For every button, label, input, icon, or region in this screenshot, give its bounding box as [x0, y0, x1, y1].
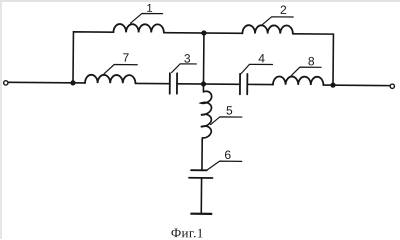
- svg-text:5: 5: [226, 104, 233, 118]
- label 7 leader: [104, 64, 137, 73]
- ground: [191, 213, 211, 215]
- wire: capacitor 3 to center node: [177, 83, 240, 86]
- label 5 leader: [211, 117, 242, 125]
- wire: left terminal to inductor 7: [8, 81, 85, 84]
- node: left junction: [70, 80, 75, 85]
- svg-text:4: 4: [258, 51, 265, 65]
- label 3 leader: [172, 64, 197, 73]
- label 8 leader: [291, 67, 321, 76]
- output terminal (right): [390, 84, 394, 88]
- wire: inductor 8 to output: [323, 84, 390, 87]
- input terminal (left): [4, 81, 8, 85]
- svg-text:8: 8: [308, 54, 315, 68]
- inductor 5: [201, 91, 212, 141]
- wire: left junction up to top line: [73, 32, 113, 83]
- svg-text:7: 7: [122, 51, 129, 65]
- wire: capacitor 4 to inductor 8: [247, 83, 273, 85]
- wire: inductor 5 to capacitor 6: [201, 141, 203, 170]
- wire: inductor 2 down to right junction: [292, 34, 333, 85]
- svg-text:Фиг.1: Фиг.1: [171, 225, 204, 239]
- node: right junction: [330, 83, 335, 88]
- wire: inductor 7 to capacitor 3: [136, 82, 170, 84]
- label 6 leader: [207, 161, 242, 171]
- capacitor 4: [240, 74, 247, 95]
- capacitor 6: [189, 170, 213, 178]
- svg-text:3: 3: [184, 52, 191, 66]
- wire: capacitor 6 to ground: [200, 178, 202, 214]
- svg-text:2: 2: [280, 3, 287, 17]
- wire: inductor 1 to top-center node: [164, 32, 243, 35]
- svg-text:1: 1: [146, 3, 152, 15]
- inductor 1: [113, 24, 163, 33]
- label 2 leader: [262, 17, 294, 26]
- svg-text:6: 6: [224, 148, 231, 162]
- label 1 leader: [131, 13, 163, 23]
- inductor 2: [242, 25, 292, 34]
- label 4 leader: [241, 64, 272, 74]
- inductor 8: [273, 76, 323, 85]
- wire: top node down to center node: [202, 33, 204, 84]
- capacitor 3: [170, 73, 177, 94]
- node: center junction: [201, 81, 206, 86]
- node: top center junction: [201, 30, 206, 35]
- wire: center node down to inductor 5: [202, 84, 204, 92]
- inductor 7: [85, 75, 135, 84]
